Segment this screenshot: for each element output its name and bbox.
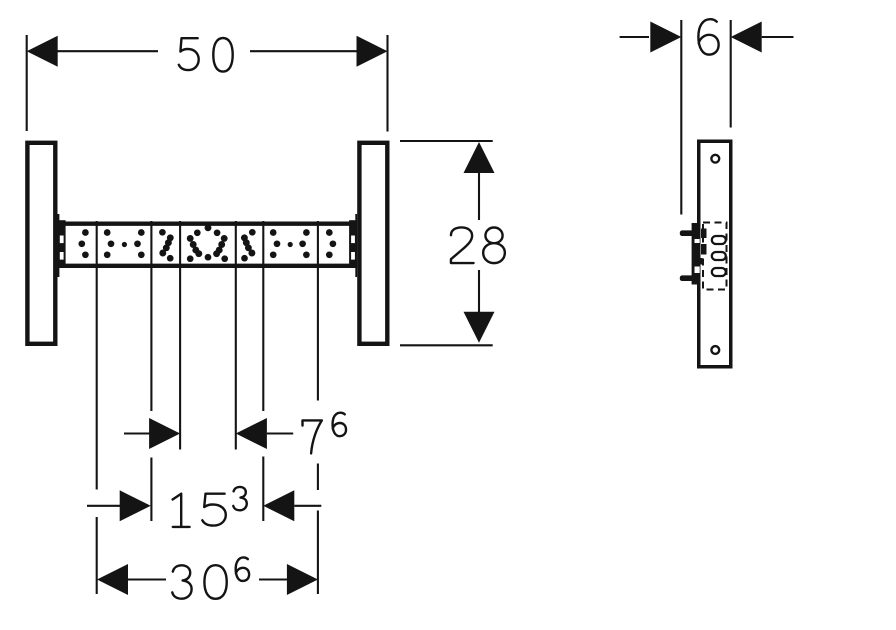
dimension 28: top arrowhead <box>464 142 495 173</box>
front view: right rail clip <box>349 214 357 277</box>
dimension 7.6: right tail <box>267 432 293 434</box>
dimension 15.3: right tail <box>294 505 321 507</box>
dimension 28: bottom arrowhead <box>464 312 495 343</box>
side view: top screw hole <box>711 155 719 163</box>
rail hole group C (left of centre) <box>159 229 174 262</box>
extension line x=96.7 (30.6 left) <box>96 221 98 594</box>
side view: clip tab 3 <box>695 258 703 265</box>
dimension 28: bottom extension line <box>400 344 493 346</box>
dimension 15.3: left arrowhead <box>120 490 151 521</box>
dimension 50: dimension line right segment <box>250 50 357 52</box>
dimension 6: left tail <box>620 36 649 38</box>
dimension 6: left arrowhead <box>650 22 681 53</box>
side view: clip tab 1 <box>701 229 707 239</box>
rail hole group A (left) <box>78 229 88 258</box>
side view: clip bottom pin <box>680 275 695 281</box>
dimension 6: right extension line <box>730 20 732 128</box>
dimension 50: left arrowhead <box>27 36 58 67</box>
extension line x=263.3 (15.3 right) <box>262 221 264 521</box>
dimension 7.6: right arrowhead <box>236 418 267 449</box>
side view: rail profile body <box>699 141 731 367</box>
dimension 28: label "28" <box>451 227 505 263</box>
dimension 28: top extension line <box>400 140 493 142</box>
dimension 50: label "50" <box>179 38 233 72</box>
front view: rail top edge <box>64 221 351 225</box>
side view: bottom screw hole <box>711 346 719 354</box>
dimension 30.6: left arrowhead <box>97 564 128 595</box>
rail hole group B mirrored (right-mid) <box>270 229 310 258</box>
dimension 6: right arrowhead <box>731 22 762 53</box>
dimension 30.6: dimension line right segment <box>259 578 288 580</box>
rail hole group A mirrored (right) <box>326 229 336 258</box>
front view: right end plate <box>359 143 387 344</box>
extension line x=151.4 (15.3 left) <box>150 221 152 521</box>
dimension 28: dimension line lower segment <box>478 270 480 313</box>
dimension 28: dimension line upper segment <box>478 171 480 220</box>
side view: clip tab 2 <box>701 244 707 255</box>
rail hole group C mirrored (right of centre) <box>241 229 256 262</box>
side view: clip connector strip <box>695 223 699 285</box>
dimension 7.6: left tail <box>124 432 150 434</box>
dimension 6: left extension line <box>680 20 682 215</box>
dimension 15.3: right arrowhead <box>263 490 294 521</box>
dimension 6: label "6" <box>698 19 718 54</box>
extension line x=317.9 (30.6 right) <box>317 221 319 594</box>
side view: slot 2 <box>712 252 726 260</box>
front view: left end plate <box>27 143 55 344</box>
front view: left rail clip <box>58 214 66 277</box>
dimension 30.6: label "30 6" <box>172 557 249 598</box>
dimension 50: dimension line left segment <box>57 50 158 52</box>
rail hole group B (left-mid) <box>104 229 145 258</box>
dimension 30.6: right arrowhead <box>287 564 318 595</box>
side view: slot 3 <box>712 268 726 276</box>
front view: rail bottom edge <box>64 264 351 268</box>
dimension 6: right tail <box>762 36 794 38</box>
dimension 15.3: left tail <box>87 505 121 507</box>
dimension 50: right arrowhead <box>357 36 388 67</box>
rail hole group centre crown <box>187 224 228 262</box>
dimension 50: left extension line <box>26 35 28 131</box>
side view: slot 1 <box>712 236 726 244</box>
dimension 15.3: label "15 3" <box>173 487 247 527</box>
dimension 30.6: dimension line left segment <box>128 578 166 580</box>
extension line x=235.8 (7.6 right) <box>235 221 237 450</box>
side view: clip top pin <box>680 230 695 236</box>
dimension 7.6: label "7 6" <box>303 413 347 454</box>
extension line x=180.1 (7.6 left) <box>179 221 181 450</box>
dimension 7.6: left arrowhead <box>149 418 180 449</box>
side view: hidden outline dashed rectangle <box>703 223 727 290</box>
side view: clip vertical bar <box>692 223 695 285</box>
dimension 50: right extension line <box>386 35 388 132</box>
